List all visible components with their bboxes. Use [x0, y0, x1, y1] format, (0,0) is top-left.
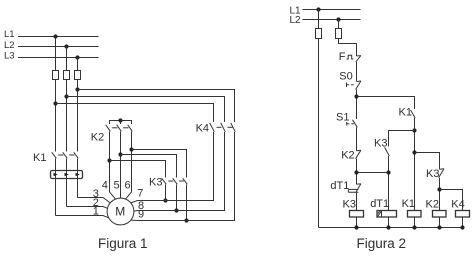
node rail K4 — [460, 225, 464, 229]
wire K3 mid down — [388, 156, 390, 211]
wire K2 pole2 to K3 pole2 — [121, 155, 177, 178]
svg-text:9: 9 — [138, 209, 144, 221]
wire branch to K1 contact — [357, 97, 415, 110]
node rail K2 — [437, 225, 441, 229]
wire K2 centre stub — [120, 121, 122, 125]
wire K1 contact down to coil K1 — [414, 118, 416, 211]
coil K3 — [350, 211, 364, 218]
wire K3 pole2 bottom — [176, 185, 178, 211]
wire K3 pole3 bottom — [186, 185, 188, 221]
wire fuse2 to K1 pole2 — [66, 80, 68, 152]
node motor line 9 — [184, 218, 188, 222]
wire motor 8 to K4 pole2 — [134, 132, 225, 211]
wire K2 to dT1 contact — [356, 159, 358, 185]
svg-text:K3: K3 — [374, 137, 387, 149]
wire K1 pole3 down — [77, 159, 79, 198]
contactor K3 pole1 contact — [162, 178, 167, 184]
fuse F2 phase L2 — [64, 71, 70, 80]
svg-text:L2: L2 — [290, 15, 302, 26]
svg-text:K3: K3 — [149, 177, 162, 189]
timer contact dT1 delay symbol — [348, 189, 358, 192]
svg-text:K3: K3 — [343, 198, 356, 210]
wire bottom rail — [319, 227, 464, 229]
contact K3 NC right — [440, 168, 444, 171]
coil K2 — [433, 211, 447, 218]
wire branch to K3 NC right — [415, 153, 440, 170]
wire L2 drop to fuse — [66, 47, 68, 71]
node junction L2 — [64, 44, 68, 48]
svg-text:L1: L1 — [4, 29, 15, 40]
wire L2 to right fuse — [338, 20, 340, 29]
wire branch to coil K4 — [440, 190, 463, 211]
contact K2 NC fig2 — [357, 149, 361, 152]
wire left rail — [318, 39, 320, 228]
contactor K4 pole2 contact — [221, 123, 226, 132]
wire L3 tap to K4 pole3 top — [78, 90, 235, 123]
wire F to S0 — [356, 62, 358, 82]
node K2 pole3 tap — [129, 147, 133, 151]
wire K3 pole1 bottom — [165, 185, 167, 201]
node K3 mid junction — [386, 170, 390, 174]
node tap L1-K4 — [53, 101, 57, 105]
contactor K4 mechanical link — [217, 126, 222, 128]
svg-text:K3: K3 — [426, 168, 439, 180]
overload relay element 1 — [54, 173, 58, 176]
contactor K1 pole3 contact — [74, 152, 79, 158]
wire to motor terminal 3 — [78, 198, 111, 203]
wire motor 9 to K4 pole3 — [131, 132, 235, 221]
wire fuse3 to K1 pole3 — [77, 80, 79, 152]
coil K4 — [456, 211, 470, 218]
wire L1 drop to fuse — [55, 37, 57, 71]
contact K3 NO mid — [385, 147, 390, 156]
wire K1 pole1 down — [55, 159, 57, 216]
motor M circle — [107, 198, 134, 225]
wire L1 to left fuse — [318, 10, 320, 29]
wire coil K1 bottom — [414, 217, 416, 228]
node K2 pole1 tap — [107, 158, 111, 162]
contactor K3 pole3 contact — [183, 178, 188, 184]
wire L3 line — [18, 57, 99, 59]
coil K1 — [408, 211, 422, 218]
wire K2 pole2 to motor 5 — [120, 132, 122, 199]
node motor line 7 — [163, 198, 167, 202]
wire to motor terminal 2 — [67, 207, 108, 209]
node K2 bridge junction — [118, 118, 122, 122]
overload relay element 3 — [76, 173, 80, 176]
contactor K2 pole2 contact — [117, 125, 122, 132]
wire L2 line fig2 — [303, 19, 361, 21]
wire K3 right down to coil K2 — [439, 178, 441, 211]
node motor line 8 — [174, 208, 178, 212]
wire K2 pole1 to motor 4 — [110, 132, 116, 200]
wire to motor terminal 1 — [56, 216, 109, 218]
overload contact F — [357, 55, 361, 57]
svg-text:K2: K2 — [91, 132, 104, 144]
contactor K4 pole3 contact — [231, 123, 236, 132]
node junction L3 — [75, 55, 79, 59]
svg-text:1: 1 — [93, 206, 99, 218]
fuse F3 phase L3 — [75, 71, 81, 80]
contactor K2 top bridge — [110, 121, 132, 125]
wire L1 tap to K4 pole1 top — [56, 104, 214, 123]
contactor K2 pole1 contact — [106, 125, 111, 132]
wire S1 to K2 — [356, 127, 358, 150]
wire coil dT1 bottom — [388, 217, 390, 228]
node rail K3 — [354, 225, 358, 229]
svg-text:K2: K2 — [426, 198, 439, 210]
overload relay box — [51, 171, 83, 179]
wire fuse1 to K1 pole1 — [55, 80, 57, 152]
contactor K3 pole2 contact — [173, 178, 178, 184]
svg-text:K1: K1 — [402, 198, 415, 210]
wire motor 7 to K4 pole1 — [131, 132, 214, 203]
wire node to K3 mid junction — [357, 172, 389, 174]
contactor K1 pole1 contact — [52, 152, 57, 158]
svg-text:K2: K2 — [341, 150, 354, 162]
coil dT1 — [377, 211, 397, 218]
wire dT1 contact to coil K3 — [356, 193, 358, 211]
wire coil K3 bottom — [356, 217, 358, 228]
wire K1 pole2 down — [66, 159, 68, 207]
node K1 branch upper — [412, 128, 416, 132]
svg-text:6: 6 — [125, 179, 131, 191]
svg-text:M: M — [115, 205, 125, 219]
svg-text:K1: K1 — [33, 152, 46, 164]
node tap L3-K4 — [75, 87, 79, 91]
svg-text:K1: K1 — [399, 106, 412, 118]
wire coil K4 bottom — [462, 217, 464, 228]
contactor K1 pole2 contact — [63, 152, 68, 158]
overload relay element 2 — [65, 173, 69, 176]
wire K2 pole3 to K3 pole3 — [132, 150, 187, 178]
svg-text:Figura 2: Figura 2 — [357, 236, 407, 251]
node junction L2 fig2 — [336, 17, 340, 21]
node rail K1 — [412, 225, 416, 229]
wire K2 pole1 to K3 pole1 — [110, 161, 166, 178]
fuse F1 phase L1 — [53, 71, 59, 80]
node K1 branch lower — [412, 150, 416, 154]
svg-text:S1: S1 — [336, 112, 349, 124]
svg-text:L2: L2 — [4, 40, 15, 51]
wire branch to K3 contact mid — [389, 131, 415, 147]
svg-text:4: 4 — [102, 179, 108, 191]
fuse right fig2 — [336, 29, 342, 39]
contactor K3 mechanical link — [168, 180, 173, 182]
fuse left fig2 — [316, 29, 322, 39]
node junction L1 — [53, 34, 57, 38]
wire coil K2 bottom — [439, 217, 441, 228]
wire fuse to F contact — [339, 39, 357, 57]
node junction L1 fig2 — [316, 7, 320, 11]
svg-text:dT1: dT1 — [330, 180, 349, 192]
wire L1 line fig2 — [303, 9, 361, 11]
pushbutton S0 NC contact — [357, 80, 361, 83]
pushbutton S0 actuator — [346, 83, 348, 88]
svg-text:K4: K4 — [196, 123, 209, 135]
timer contact dT1 NC — [357, 183, 361, 186]
wire K2 pole3 to motor 6 — [126, 132, 132, 200]
wire L2 line — [18, 46, 99, 48]
node rail dT1 — [386, 225, 390, 229]
svg-text:5: 5 — [114, 179, 120, 191]
wire S0 to S1 — [356, 90, 358, 120]
svg-text:S0: S0 — [339, 71, 352, 83]
pushbutton S1 actuator — [346, 122, 348, 126]
contactor K4 pole1 contact — [210, 123, 215, 132]
contact K1 NO fig2 — [411, 110, 416, 118]
node below K2 — [354, 170, 358, 174]
svg-text:dT1: dT1 — [370, 198, 389, 210]
overload contact F element — [347, 55, 354, 59]
node above coil K2 — [437, 187, 441, 191]
node tap L2-K4 — [64, 94, 68, 98]
wire L3 drop to fuse — [77, 58, 79, 71]
svg-text:Figura 1: Figura 1 — [98, 236, 148, 251]
contactor K1 mechanical link — [58, 154, 63, 156]
svg-text:7: 7 — [137, 188, 143, 200]
contactor K2 pole3 contact — [128, 125, 133, 132]
pushbutton S1 NO contact — [353, 120, 358, 128]
wire L1 line — [18, 36, 99, 38]
node below S0 — [354, 94, 358, 98]
contactor K2 mechanical link — [112, 127, 117, 129]
wire L2 tap to K4 pole2 top — [67, 97, 225, 123]
node K2 pole2 tap — [118, 152, 122, 156]
svg-text:K4: K4 — [451, 198, 464, 210]
svg-text:L3: L3 — [4, 51, 15, 62]
svg-text:F: F — [339, 51, 346, 63]
